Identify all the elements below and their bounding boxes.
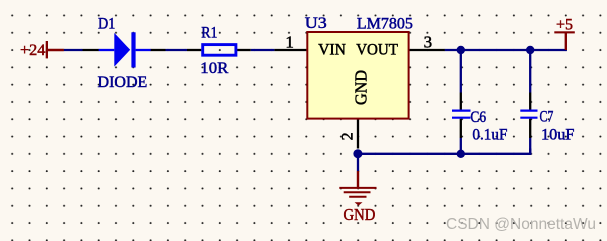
svg-text:VIN: VIN bbox=[318, 42, 346, 59]
svg-text:R1: R1 bbox=[201, 25, 217, 42]
svg-text:C6: C6 bbox=[470, 109, 486, 126]
svg-text:GND: GND bbox=[344, 205, 376, 224]
svg-text:0.1uF: 0.1uF bbox=[472, 127, 507, 144]
svg-text:3: 3 bbox=[424, 32, 433, 51]
svg-text:C7: C7 bbox=[540, 109, 554, 126]
svg-text:D1: D1 bbox=[98, 15, 115, 32]
svg-text:+24: +24 bbox=[20, 42, 45, 59]
svg-text:+5: +5 bbox=[556, 17, 573, 34]
svg-text:CSDN @NonnettaWu: CSDN @NonnettaWu bbox=[446, 216, 596, 233]
svg-text:10uF: 10uF bbox=[541, 126, 575, 143]
svg-text:1: 1 bbox=[285, 32, 294, 51]
svg-text:2: 2 bbox=[340, 132, 357, 140]
svg-text:U3: U3 bbox=[305, 15, 327, 32]
svg-text:GND: GND bbox=[351, 70, 370, 105]
svg-text:DIODE: DIODE bbox=[98, 74, 148, 91]
svg-text:LM7805: LM7805 bbox=[357, 15, 413, 32]
svg-text:10R: 10R bbox=[200, 60, 228, 77]
svg-text:VOUT: VOUT bbox=[356, 41, 398, 58]
